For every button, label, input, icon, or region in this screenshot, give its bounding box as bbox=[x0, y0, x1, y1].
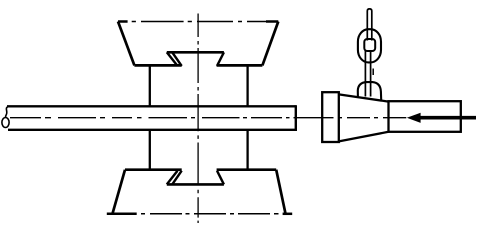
chain middle link (face view oval) bbox=[358, 29, 381, 62]
shaft top line bbox=[7, 105, 296, 107]
web left vertical (top half) bbox=[149, 65, 151, 106]
pulley bottom rim bottom edge dash-dot middle bbox=[141, 213, 279, 215]
force arrow shaft bbox=[420, 116, 477, 120]
shaft break mark (left end squiggle) bbox=[6, 106, 9, 117]
hub boss (top) right chamfer bbox=[217, 52, 224, 66]
drift tool flange bbox=[322, 92, 339, 142]
pulley top rim bottom edge left bbox=[134, 64, 181, 67]
pulley top rim: top edge left corner segment bbox=[118, 20, 128, 23]
pulley bottom rim top edge right bbox=[217, 168, 277, 171]
web right vertical (top half) bbox=[246, 65, 248, 106]
pulley top rim: top edge dash-dot middle bbox=[132, 21, 266, 23]
horizontal centerline (shaft axis) bbox=[10, 117, 406, 119]
pulley bottom rim top edge left bbox=[125, 168, 182, 171]
chain bottom link (half oval on cone) bbox=[358, 82, 381, 100]
hub boss (bottom) bottom edge bbox=[167, 183, 224, 186]
force arrow head bbox=[407, 113, 421, 123]
drift tool body cylinder bbox=[389, 101, 461, 132]
drift tool cone bottom line bbox=[339, 132, 389, 142]
pulley bottom rim left side bbox=[113, 170, 126, 214]
pulley bottom rim bottom edge left corner segment bbox=[107, 213, 137, 216]
pulley top rim left side bbox=[118, 22, 134, 66]
hub boss (top) left chamfer double line bbox=[167, 52, 182, 66]
chain top link (edge view bar) bbox=[367, 9, 372, 41]
web right vertical (bottom half) bbox=[246, 130, 248, 170]
pulley bottom rim bottom edge right corner segment bbox=[283, 213, 293, 216]
hub boss (bottom) left chamfer double line bbox=[167, 171, 182, 185]
shaft right end face bbox=[295, 105, 297, 131]
hub boss (top) top edge bbox=[167, 51, 224, 54]
chain lower link end tick bbox=[372, 69, 374, 76]
chain lower link (edge view bar) bbox=[365, 50, 370, 97]
vertical centerline (wheel axis) bbox=[197, 14, 199, 224]
shaft bottom line bbox=[8, 129, 296, 131]
hub boss (bottom) right chamfer bbox=[217, 171, 224, 185]
pulley top rim right side bbox=[262, 22, 278, 66]
pulley top rim: top edge right corner segment bbox=[266, 20, 278, 23]
chain link overlap loop (center of oval) bbox=[364, 39, 375, 51]
pulley bottom rim right side bbox=[276, 170, 285, 214]
pulley top rim bottom edge right bbox=[217, 64, 263, 67]
drift tool cone top line bbox=[339, 94, 389, 101]
web left vertical (bottom half) bbox=[149, 130, 151, 170]
